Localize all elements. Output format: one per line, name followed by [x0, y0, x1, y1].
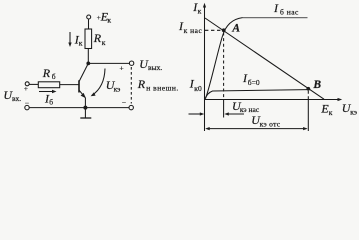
svg-text:I: I	[273, 1, 279, 15]
svg-text:R: R	[93, 31, 102, 45]
svg-text:б нас: б нас	[280, 8, 299, 17]
svg-text:б=0: б=0	[248, 78, 260, 87]
svg-text:+: +	[120, 63, 124, 72]
svg-text:к: к	[329, 108, 333, 117]
svg-text:к нас: к нас	[184, 26, 203, 35]
svg-text:к: к	[198, 6, 202, 15]
svg-text:б: б	[49, 98, 53, 107]
svg-text:B: B	[312, 79, 321, 91]
svg-text:кэ: кэ	[114, 84, 121, 93]
svg-text:н внешн.: н внешн.	[146, 83, 178, 92]
svg-text:A: A	[231, 23, 240, 35]
svg-text:R: R	[42, 66, 51, 80]
svg-text:вых.: вых.	[148, 63, 162, 72]
svg-text:−: −	[25, 99, 29, 108]
svg-text:к: к	[79, 39, 83, 48]
svg-text:вх.: вх.	[12, 94, 21, 103]
svg-text:кэ отс: кэ отс	[260, 119, 281, 128]
svg-text:к: к	[107, 16, 111, 25]
svg-text:кэ: кэ	[350, 108, 357, 117]
svg-text:−: −	[122, 98, 126, 107]
svg-text:R: R	[137, 77, 146, 91]
svg-text:+: +	[24, 84, 28, 93]
svg-text:к0: к0	[194, 84, 202, 93]
svg-text:б: б	[52, 72, 56, 81]
svg-text:к: к	[102, 38, 106, 47]
